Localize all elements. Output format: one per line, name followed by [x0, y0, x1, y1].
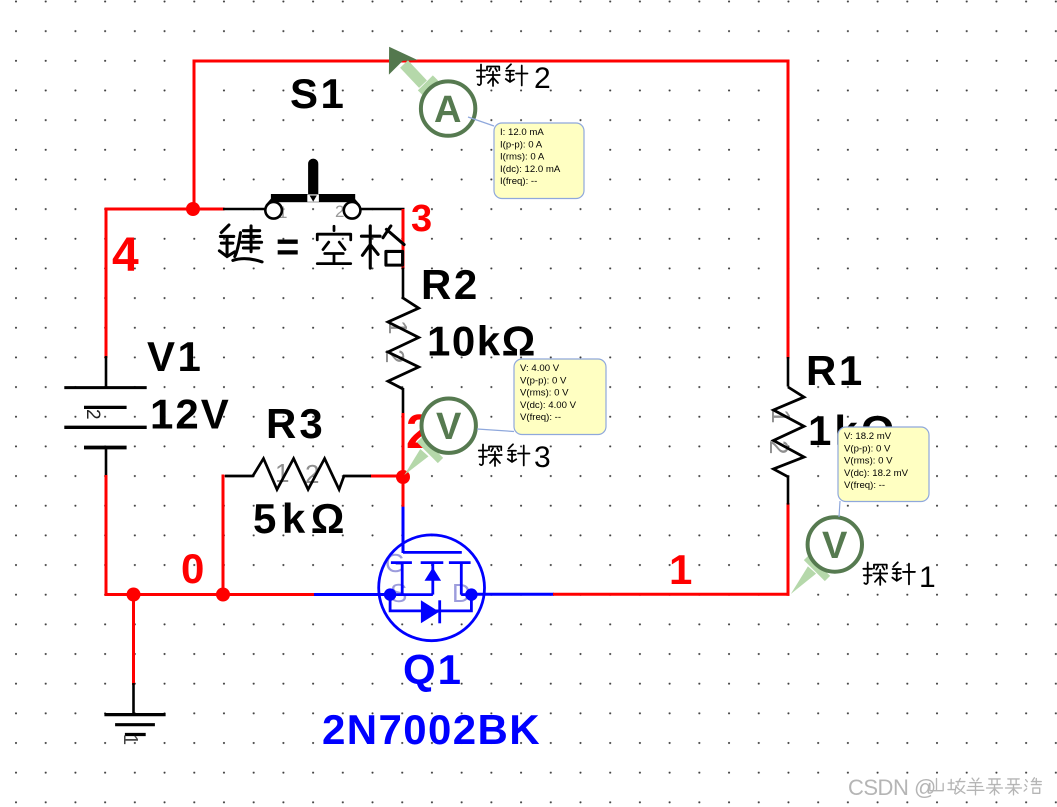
svg-text:V(freq): --: V(freq): --	[844, 480, 885, 491]
svg-text:5kΩ: 5kΩ	[253, 495, 350, 542]
wire: battery top lead (black)	[105, 356, 108, 388]
svg-text:I(rms): 0 A: I(rms): 0 A	[500, 152, 545, 163]
Q1 substrate vertical	[431, 564, 434, 595]
svg-text:V: V	[822, 525, 848, 567]
svg-text:V(dc): 4.00 V: V(dc): 4.00 V	[520, 400, 577, 411]
wire: battery bottom lead (black)	[105, 448, 108, 478]
svg-text:10kΩ: 10kΩ	[427, 318, 537, 365]
Q1 body diode cathode bar	[438, 600, 441, 623]
svg-text:2N7002BK: 2N7002BK	[322, 706, 541, 753]
probe 1 arrow	[791, 558, 828, 595]
wire: R2 bottom black lead	[402, 388, 405, 415]
wire: switch left red stub from junction	[193, 208, 225, 211]
Q1 body diode triangle	[421, 600, 439, 623]
S1 right hinge tick	[352, 198, 359, 206]
wire: battery top vertical (red part, net 4)	[105, 209, 108, 358]
S1 left terminal circle	[265, 202, 282, 219]
Q1 drain horizontal	[461, 593, 472, 596]
ground bar 2	[115, 723, 155, 726]
wire: bottom rail red left section (net 0)	[105, 593, 316, 596]
wire: R2 top vertical red (net 3)	[402, 209, 405, 269]
watermark CSDN @山坡羊某某浩	[848, 775, 1041, 800]
ground bar 3	[125, 733, 146, 736]
svg-text:V(rms): 0 V: V(rms): 0 V	[520, 388, 569, 399]
wire: battery bottom vertical red to bottom rail	[105, 475, 108, 596]
probe 3 tooltip box (voltage readings)	[514, 359, 606, 435]
S1 contact bar	[271, 194, 355, 202]
label 键 = 空格 (Key = Space)	[219, 225, 404, 268]
Q1 source horizontal	[390, 593, 433, 596]
svg-text:4: 4	[112, 229, 139, 282]
battery plate long	[64, 426, 146, 429]
wire: R2 bottom red to junction node 2	[402, 413, 405, 478]
Q1 drain descender	[460, 563, 463, 595]
probe 2 ammeter circle A	[421, 81, 475, 135]
svg-text:0: 0	[181, 545, 204, 592]
Q1 body-diode path	[390, 595, 471, 611]
wire: ground stub red	[132, 595, 135, 686]
junction dot at ground node 0	[127, 588, 141, 602]
probe 3 tooltip connector	[477, 429, 514, 432]
svg-text:3: 3	[534, 441, 551, 474]
R1 zigzag body	[774, 387, 805, 477]
svg-text:A: A	[434, 89, 461, 131]
junction dot at R3 riser node 0	[216, 588, 230, 602]
svg-text:1: 1	[766, 409, 796, 423]
wire: R1 bottom vertical red	[787, 503, 790, 596]
wire: ground stem black	[132, 683, 135, 715]
svg-text:Q1: Q1	[403, 646, 463, 693]
battery plate short	[84, 406, 127, 409]
wire: gate blue wire into Q1	[402, 507, 405, 553]
resistor R1 1k (vertical zigzag)	[764, 387, 804, 477]
Q1 channel dash source	[391, 561, 412, 564]
S1 stem notch	[307, 194, 319, 201]
switch S1 (push button)	[265, 159, 360, 222]
wire: bottom rail red right section (net 1)	[553, 593, 790, 596]
wire: R3 right red stub into junction node 2	[370, 475, 404, 478]
Q1 body circle	[379, 535, 485, 641]
svg-text:1: 1	[119, 734, 141, 745]
wire: switch right black lead	[361, 208, 405, 211]
svg-text:I(p-p): 0 A: I(p-p): 0 A	[500, 139, 543, 150]
svg-text:V(freq): --: V(freq): --	[520, 412, 561, 423]
wire: bottom rail blue right (from Q1 drain)	[471, 593, 554, 596]
label 探针2 (probe 2)	[477, 64, 528, 86]
label 探针3 (probe 3)	[479, 444, 530, 466]
junction dot at switch/battery node 4	[186, 202, 200, 216]
svg-text:3: 3	[411, 198, 432, 240]
resistor R2 10k (vertical zigzag)	[380, 298, 419, 389]
svg-text:V(p-p): 0 V: V(p-p): 0 V	[844, 443, 891, 454]
Q1 source terminal dot	[384, 588, 396, 600]
wire: R1 top vertical red (net 3)	[787, 61, 790, 359]
svg-text:1: 1	[919, 561, 936, 594]
Q1 source descender	[401, 563, 404, 595]
svg-text:R2: R2	[421, 261, 480, 308]
resistor R3 5k (horizontal zigzag)	[225, 458, 371, 490]
svg-text:V(dc): 18.2 mV: V(dc): 18.2 mV	[844, 468, 909, 479]
label 探针1 (probe 1)	[863, 562, 915, 585]
wire: R1 bottom black lead	[787, 476, 790, 505]
svg-text:R3: R3	[266, 400, 326, 447]
R2 zigzag body	[388, 298, 419, 389]
svg-text:V(rms): 0 V: V(rms): 0 V	[844, 456, 893, 467]
Q1 channel dash middle	[421, 561, 444, 564]
wire: top-left vertical down to switch junction	[193, 61, 196, 209]
svg-text:2: 2	[534, 62, 551, 95]
svg-text:I: 12.0 mA: I: 12.0 mA	[500, 127, 544, 138]
svg-text:R1: R1	[806, 347, 865, 394]
wire: R2 top black lead	[402, 268, 405, 300]
Q1 channel dash drain	[449, 561, 471, 564]
probe 1 tooltip box (voltage readings)	[838, 427, 929, 502]
wire: gate red stub below junction	[402, 477, 405, 508]
svg-text:I(freq): --: I(freq): --	[500, 176, 537, 187]
junction dot node 2 (R2/R3/gate)	[396, 470, 410, 484]
battery plate short bottom (-)	[84, 446, 127, 450]
svg-text:V: V	[436, 406, 462, 448]
svg-text:V: 18.2 mV: V: 18.2 mV	[844, 431, 892, 442]
svg-text:1: 1	[669, 546, 692, 593]
wire: top horizontal net 3 from switch corner to R1	[193, 60, 790, 63]
probe 2 arrow (ammeter, current direction)	[389, 47, 436, 93]
probe 3 arrow	[404, 440, 440, 476]
R3 zigzag body	[225, 459, 371, 490]
svg-text:2: 2	[82, 409, 103, 420]
svg-text:=: =	[276, 225, 299, 269]
Q1 gate bar	[403, 551, 462, 554]
probe 1 tooltip connector	[839, 501, 840, 517]
wire: horizontal from junction to battery branch	[105, 208, 195, 211]
wire: switch left black lead	[223, 208, 265, 211]
svg-text:V: 4.00 V: V: 4.00 V	[520, 363, 560, 374]
probe 1 voltmeter circle V	[808, 517, 862, 571]
svg-text:12V: 12V	[150, 391, 231, 438]
Q1 drain terminal dot	[465, 588, 477, 600]
ground symbol	[104, 715, 165, 746]
svg-text:V(p-p): 0 V: V(p-p): 0 V	[520, 375, 567, 386]
probe 2 tooltip connector	[468, 117, 494, 126]
battery V1 12V	[64, 388, 146, 448]
svg-text:S1: S1	[290, 70, 346, 117]
wire: bottom rail blue left (to Q1 source)	[314, 593, 391, 596]
svg-text:V1: V1	[147, 333, 203, 380]
Q1 substrate arrow	[425, 568, 442, 581]
wire: R1 top black lead	[787, 357, 790, 387]
wire: R3 left vertical red riser	[222, 475, 225, 595]
S1 left hinge tick	[267, 198, 274, 206]
transistor Q1 2N7002BK (NMOS)	[379, 535, 485, 641]
S1 actuator stem	[308, 159, 318, 199]
probe 2 tooltip box (current readings)	[494, 123, 584, 199]
svg-text:CSDN @: CSDN @	[848, 775, 936, 800]
ground bar 1	[104, 713, 165, 716]
S1 right terminal circle	[344, 202, 361, 219]
probe 3 voltmeter circle V	[422, 399, 476, 453]
svg-text:I(dc): 12.0 mA: I(dc): 12.0 mA	[500, 164, 561, 175]
battery plate long top (+)	[64, 386, 146, 389]
